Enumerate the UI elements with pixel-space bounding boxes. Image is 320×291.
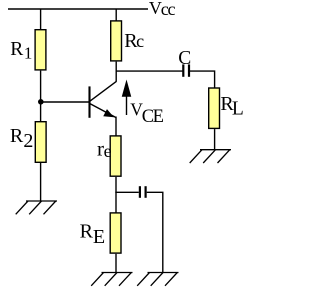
svg-text:E: E xyxy=(93,226,105,248)
svg-text:2: 2 xyxy=(23,130,33,152)
svg-text:L: L xyxy=(232,99,244,120)
svg-text:R: R xyxy=(10,125,24,147)
svg-text:e: e xyxy=(104,141,112,161)
wire bypass branch xyxy=(115,191,139,193)
wire Vcc supply rail xyxy=(8,8,148,10)
wire re to RE xyxy=(115,177,117,213)
svg-text:Rc: Rc xyxy=(124,30,144,52)
ground under RE xyxy=(91,273,132,286)
resistor RE xyxy=(110,213,121,253)
resistor Rc xyxy=(111,21,122,61)
svg-text:1: 1 xyxy=(24,43,33,62)
wire Rc top xyxy=(115,9,117,21)
wire RL to ground xyxy=(214,129,216,150)
wire RE to ground xyxy=(115,254,117,273)
resistor R2 xyxy=(35,122,46,163)
svg-text:Vcc: Vcc xyxy=(149,0,176,19)
wire Rc bottom to collector xyxy=(115,62,117,82)
capacitor C xyxy=(183,64,189,76)
ground under R2 xyxy=(16,201,57,214)
resistor R1 xyxy=(35,30,46,70)
wire C to RL xyxy=(190,71,215,87)
arrow VCE xyxy=(122,80,132,116)
ground under bypass capacitor xyxy=(137,273,178,286)
capacitor CE bypass xyxy=(140,186,146,198)
ground under RL xyxy=(190,150,231,163)
resistor re xyxy=(110,136,121,176)
transistor Q1 xyxy=(90,81,117,117)
svg-text:R: R xyxy=(10,39,23,60)
wire R1 to R2 xyxy=(40,71,42,122)
wire emitter to re xyxy=(115,117,117,136)
wire collector node to capacitor C xyxy=(116,70,183,72)
wire R1 top xyxy=(40,9,42,30)
svg-text:CE: CE xyxy=(142,107,164,127)
resistor RL xyxy=(209,88,220,128)
wire R2 to ground xyxy=(40,163,42,201)
node base junction xyxy=(38,99,44,105)
wire base xyxy=(41,101,90,103)
svg-text:R: R xyxy=(80,221,94,243)
wire bypass capacitor to ground xyxy=(147,192,163,272)
